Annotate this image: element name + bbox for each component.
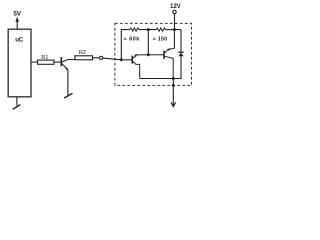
wire terminal into dashed box xyxy=(103,58,132,60)
wire Tb base xyxy=(148,54,163,56)
wire output junction to box edge xyxy=(172,79,174,86)
ground (under Q1 emitter) xyxy=(64,93,72,98)
wire top rail to diode xyxy=(180,30,182,52)
wire 12V terminal down xyxy=(174,14,176,30)
diode D1 (flyback) xyxy=(178,51,183,53)
resistor ~60k (zigzag) xyxy=(130,28,139,31)
output arrow down xyxy=(172,85,174,106)
svg-text:5V: 5V xyxy=(13,11,21,18)
wire R2 to terminal xyxy=(93,57,100,59)
5V supply arrow xyxy=(15,17,19,22)
svg-text:R1: R1 xyxy=(41,55,48,61)
wire R1 to base Q1 xyxy=(54,61,61,63)
svg-text:12V: 12V xyxy=(170,3,182,10)
dashed equivalent-circuit box xyxy=(115,23,192,85)
resistor ~150 (zigzag) xyxy=(156,28,165,31)
wire mid riser xyxy=(147,30,149,55)
resistor R1 xyxy=(38,60,54,64)
svg-text:≈ 150: ≈ 150 xyxy=(153,36,167,42)
node input junction xyxy=(120,58,123,61)
wire uC to R1 xyxy=(31,61,38,63)
wire riser input to top rail xyxy=(121,30,130,60)
svg-text:R2: R2 xyxy=(79,50,86,56)
wire diode anode down to output rail xyxy=(173,56,181,78)
transistor Tb xyxy=(164,48,174,78)
12V terminal (open circle) xyxy=(173,10,176,13)
wire zigzag2 to 12V node and right corner xyxy=(165,29,181,31)
wire 12V node to Tb collector xyxy=(173,30,175,49)
node top mid junction xyxy=(147,28,150,31)
node on dashed edge xyxy=(172,84,175,87)
input terminal (open circle) xyxy=(100,56,103,59)
resistor R2 xyxy=(75,56,93,60)
ground (left) xyxy=(13,105,21,110)
output rail wire xyxy=(140,78,174,80)
node Tb base junction xyxy=(147,53,150,56)
wire uC to ground xyxy=(16,97,18,106)
uC box U1 xyxy=(8,29,31,97)
svg-text:≈ 60k: ≈ 60k xyxy=(124,36,140,42)
wire zigzag1 to zigzag2 xyxy=(139,29,156,31)
node output junction xyxy=(172,77,175,80)
transistor Ta xyxy=(132,55,148,79)
node 12V junction xyxy=(173,28,176,31)
svg-text:uC: uC xyxy=(15,36,24,43)
transistor Q1 xyxy=(61,57,75,95)
